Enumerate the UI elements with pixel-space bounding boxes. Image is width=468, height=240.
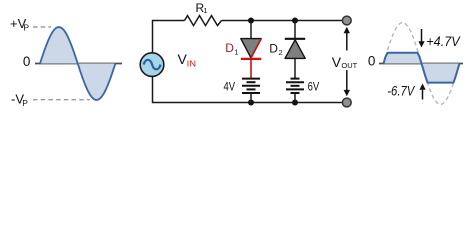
+4.7V level arrow	[418, 29, 424, 48]
diode D2	[285, 39, 305, 59]
wire: D1 anode from top rail	[250, 21, 252, 39]
wire: D1 cathode to 4V battery (red highlight)	[250, 59, 252, 79]
Vout measurement arrow up	[344, 27, 350, 51]
wire: top rail from source to R1	[153, 21, 185, 53]
terminal: Vout top	[342, 16, 351, 25]
svg-text:1: 1	[203, 6, 207, 15]
diode D1	[241, 39, 261, 59]
wire: D2 cathode from top rail	[294, 21, 296, 39]
junction: top of D2	[292, 18, 298, 24]
svg-text:P: P	[23, 22, 29, 32]
svg-text:0: 0	[23, 54, 31, 69]
svg-text:OUT: OUT	[341, 61, 357, 70]
output waveform: clipped wave fill	[384, 53, 460, 83]
svg-text:D: D	[269, 41, 278, 55]
svg-text:2: 2	[279, 48, 283, 57]
output waveform: original sine dashed	[384, 23, 460, 105]
battery 4V	[242, 79, 260, 93]
terminal: Vout bottom	[342, 98, 351, 107]
resistor R1	[185, 16, 222, 26]
wire: 4V battery to bottom rail	[250, 93, 252, 103]
svg-text:0: 0	[368, 53, 376, 68]
svg-text:4V: 4V	[224, 82, 236, 94]
svg-text:D: D	[225, 41, 234, 55]
label D1	[225, 41, 238, 56]
label VIN	[178, 51, 197, 68]
output waveform: clipped wave curve	[384, 53, 460, 83]
input waveform: +Vp dashed level line	[33, 26, 51, 28]
output waveform: axis line	[379, 63, 463, 65]
svg-text:IN: IN	[187, 58, 196, 68]
junction: top of D1	[248, 18, 254, 24]
svg-text:P: P	[22, 98, 28, 108]
junction: bottom of D2 branch	[292, 100, 298, 106]
svg-text:V: V	[332, 54, 342, 70]
battery 6V	[286, 79, 304, 93]
wire: top rail from R1 to output terminal	[222, 20, 343, 22]
wire: 6V battery to bottom rail	[294, 93, 296, 103]
label -Vp	[11, 91, 28, 108]
svg-text:+4.7V: +4.7V	[426, 34, 461, 49]
svg-text:-6.7V: -6.7V	[387, 83, 416, 98]
input waveform: sine fill	[40, 27, 115, 100]
input waveform: -Vp dashed level line	[33, 99, 90, 101]
-6.7V level arrow	[419, 84, 425, 100]
input waveform: axis line	[35, 63, 122, 65]
wire: bottom rail	[153, 76, 343, 102]
label +Vp	[10, 16, 29, 32]
AC source VIN	[140, 53, 164, 77]
svg-text:6V: 6V	[308, 82, 320, 94]
svg-text:1: 1	[234, 48, 238, 57]
label R1	[196, 1, 208, 15]
junction: bottom of D1 branch	[248, 100, 254, 106]
label D2	[269, 41, 282, 57]
label VOUT	[332, 54, 358, 70]
Vout measurement arrow down	[344, 70, 350, 96]
wire: D2 anode to 6V battery	[294, 58, 296, 78]
input waveform: sine curve	[40, 27, 115, 100]
